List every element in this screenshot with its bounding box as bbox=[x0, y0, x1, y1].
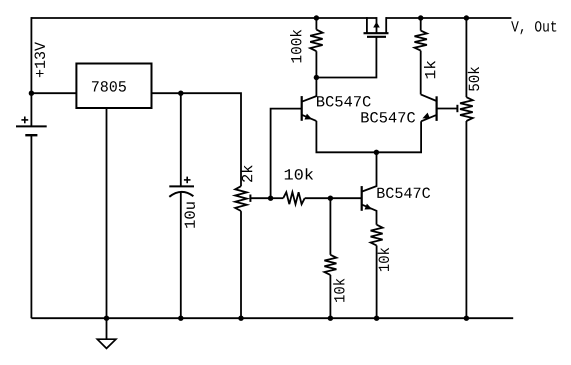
wire 7805 ground pin bbox=[106, 108, 108, 318]
node R-10k left bottom junction bbox=[328, 316, 333, 321]
mosfet M1 bulk lead with arrow bbox=[373, 17, 380, 33]
battery plus sign bbox=[21, 117, 28, 124]
wire battery node to 7805 input bbox=[31, 92, 76, 94]
regulator U1 7805 box bbox=[76, 64, 151, 109]
wire R-10k emitter to bottom rail bbox=[376, 246, 378, 319]
node 100k bottom / gate junction bbox=[314, 75, 319, 80]
mosfet M1 source lead bbox=[366, 17, 368, 33]
transistor Q1 emitter bbox=[302, 114, 317, 121]
ground symbol bbox=[97, 318, 116, 348]
wire gate feedback bbox=[316, 37, 376, 78]
label +13V bbox=[35, 42, 46, 77]
node battery/+13V junction bbox=[29, 91, 34, 96]
node 7805 output / capacitor junction bbox=[178, 91, 183, 96]
capacitor C1 top plate bbox=[169, 185, 194, 187]
resistor R-10k emitter body bbox=[371, 225, 383, 246]
resistor R-10k bottom-left body bbox=[324, 255, 336, 275]
wire differential pair emitter bus bbox=[316, 121, 421, 152]
label BC547C Q3 bbox=[377, 188, 430, 199]
node 1k top junction bbox=[418, 15, 423, 20]
transistor Q1 bar bbox=[301, 96, 303, 121]
transistor Q3 emitter bbox=[362, 204, 377, 225]
node emitter bus / Q3 collector junction bbox=[374, 150, 379, 155]
label 10u bbox=[184, 202, 195, 228]
potentiometer R-50k body bbox=[460, 97, 473, 121]
resistor R-2k body bbox=[235, 186, 247, 211]
label V, Out bbox=[511, 21, 556, 34]
transistor Q3 collector bbox=[362, 152, 377, 191]
label 2k bbox=[241, 165, 252, 182]
capacitor C1 curved plate bbox=[169, 192, 193, 197]
label BC547C Q1 bbox=[317, 96, 371, 107]
wire bottom rail bbox=[31, 317, 513, 319]
battery B1 negative plate bbox=[25, 134, 37, 136]
wire 1k bottom lead / Q2 collector bbox=[420, 51, 422, 95]
wire wiper junction up to Q1 base bbox=[271, 109, 302, 199]
wire 100k bottom lead bbox=[315, 51, 317, 77]
transistor Q2 emitter bbox=[421, 113, 436, 122]
wire 50k bottom lead bbox=[465, 121, 467, 318]
wire 2k bottom lead bbox=[240, 211, 242, 318]
wire top rail right segment bbox=[386, 17, 511, 19]
node wiper junction bbox=[268, 196, 273, 201]
resistor R-10k horizontal body bbox=[283, 192, 305, 204]
transistor Q2 collector bbox=[421, 94, 437, 101]
wire battery negative to bottom rail bbox=[30, 135, 32, 318]
resistor R-100k body bbox=[310, 30, 322, 52]
label 10k bottom-left bbox=[333, 279, 344, 302]
transistor Q2 bar bbox=[436, 96, 438, 121]
battery B1 positive plate bbox=[16, 125, 47, 127]
label 10k emitter bbox=[378, 248, 389, 271]
mosfet M1 channel bar bbox=[364, 32, 389, 34]
mosfet M1 drain lead bbox=[385, 17, 387, 33]
node Q3 base junction bbox=[328, 196, 333, 201]
node 50k top junction bbox=[464, 15, 469, 20]
transistor Q1 collector bbox=[302, 78, 317, 102]
wire R-10k to Q3 base node bbox=[305, 197, 331, 199]
label 10k horizontal bbox=[285, 168, 313, 179]
wire 7805 output bbox=[152, 93, 242, 186]
node 50k bottom junction bbox=[464, 316, 469, 321]
wire 1k top lead bbox=[420, 18, 422, 31]
resistor R-1k body bbox=[415, 31, 427, 51]
node 2k bottom junction bbox=[238, 316, 243, 321]
label 7805 bbox=[92, 81, 126, 92]
wire wiper junction to R-10k bbox=[271, 197, 284, 199]
wire capacitor bottom lead bbox=[180, 192, 182, 319]
node R-10k emitter bottom junction bbox=[374, 316, 379, 321]
wire top rail left segment bbox=[31, 17, 376, 19]
wire Q2 base to 50k wiper bbox=[437, 105, 458, 112]
node capacitor bottom junction bbox=[178, 316, 183, 321]
node 100k top junction bbox=[314, 15, 319, 20]
label BC547C Q2 bbox=[361, 112, 415, 123]
wire R-10k left to bottom rail bbox=[329, 275, 331, 318]
transistor Q3 bar bbox=[361, 186, 363, 211]
wire 100k top lead bbox=[315, 18, 317, 30]
wire 50k top lead bbox=[465, 18, 467, 97]
wire node down to R-10k left bbox=[329, 198, 331, 255]
label 50k bbox=[468, 67, 479, 91]
node ground junction on bottom rail bbox=[104, 316, 109, 321]
mosfet M1 gate bar bbox=[367, 36, 386, 38]
wire capacitor top lead bbox=[180, 93, 182, 186]
trimmer 2k wiper tap bbox=[250, 195, 270, 202]
capacitor plus sign bbox=[184, 177, 191, 184]
label 1k bbox=[424, 61, 435, 79]
label 100k bbox=[290, 30, 301, 63]
wire left vertical from top rail to battery bbox=[30, 17, 32, 126]
wire Q3 base bbox=[330, 197, 361, 199]
